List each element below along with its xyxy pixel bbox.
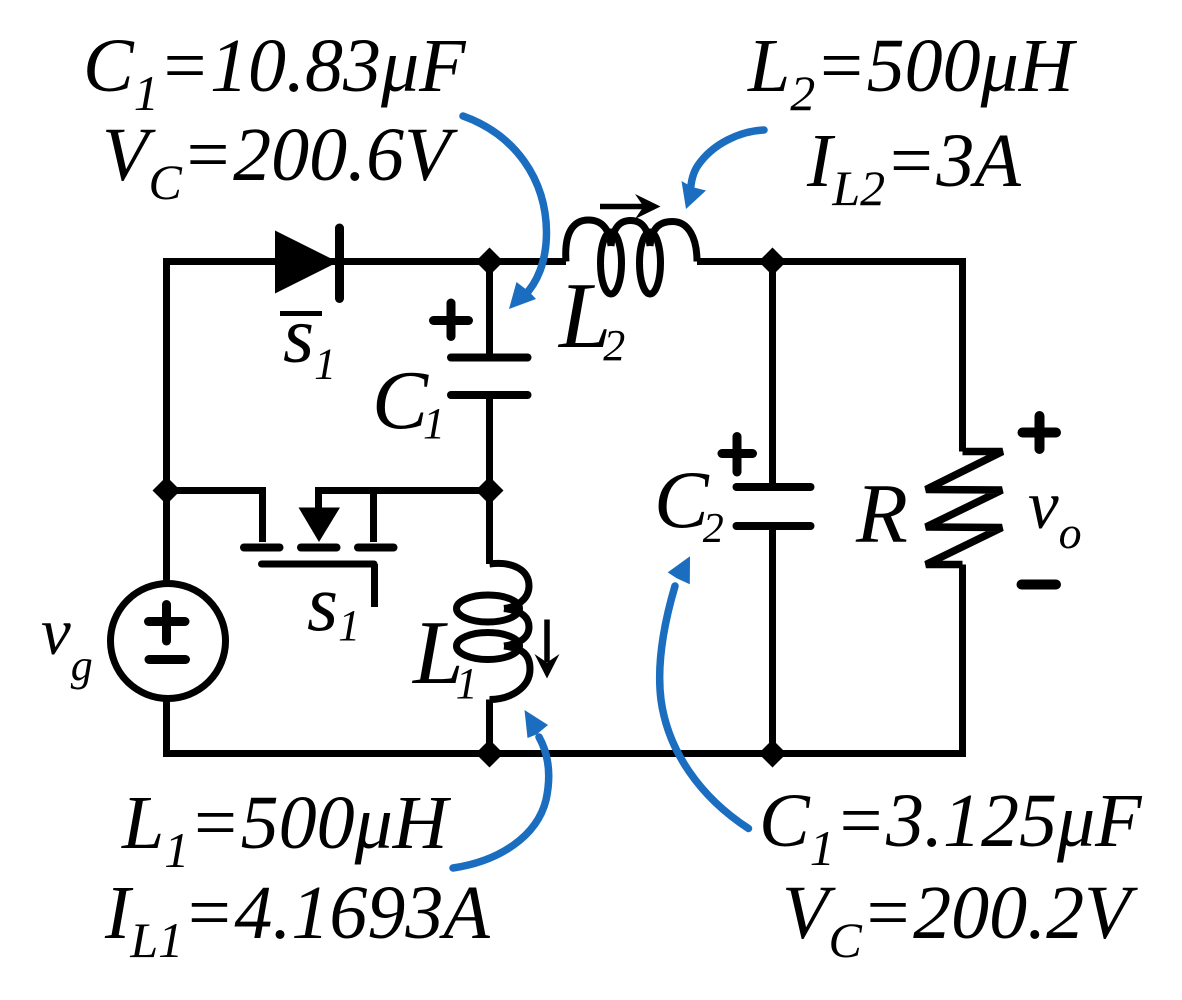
voltage source vg plus — [149, 605, 186, 642]
output vo minus — [1022, 580, 1057, 590]
svg-text:vg: vg — [41, 595, 93, 690]
wire C2 bottom — [769, 530, 776, 754]
MOSFET s1 body arrow — [299, 508, 341, 543]
capacitor C1 plus sign — [434, 303, 469, 337]
wire left vertical lower — [163, 698, 170, 754]
voltage source vg circle — [111, 584, 226, 699]
svg-text:VC=200.6V: VC=200.6V — [102, 113, 458, 210]
svg-text:C1=10.83μF: C1=10.83μF — [83, 24, 467, 121]
wire C1 bottom — [486, 399, 493, 491]
svg-text:C2: C2 — [654, 454, 724, 552]
MOSFET s1 source lead — [370, 487, 377, 542]
capacitor C1 top plate — [451, 354, 528, 362]
svg-text:VC=200.2V: VC=200.2V — [782, 871, 1138, 968]
callout arrow to C2 — [660, 556, 749, 828]
wire right vertical upper — [959, 258, 966, 452]
svg-text:vo: vo — [1028, 467, 1082, 558]
capacitor C2 plus sign — [722, 437, 753, 473]
svg-text:L2=500μH: L2=500μH — [747, 24, 1078, 121]
wire C1 top — [486, 262, 493, 355]
inductor L1 coil — [457, 563, 531, 699]
MOSFET s1 gate lead — [371, 564, 378, 607]
voltage source vg minus — [149, 655, 186, 664]
node F bottom C2 junction — [759, 740, 787, 768]
capacitor C2 bottom plate — [737, 522, 811, 530]
node D mid-right junction — [476, 477, 504, 505]
diode S1bar cathode bar — [335, 228, 344, 299]
node A top C1 junction — [476, 248, 504, 276]
wire mid rail left — [167, 487, 265, 494]
wire top rail left — [167, 258, 567, 265]
MOSFET s1 body lead — [315, 487, 322, 508]
inductor L2 coil — [566, 220, 697, 294]
wire C2 top — [769, 262, 776, 484]
callout arrow to L2 — [682, 130, 765, 209]
capacitor C2 top plate — [737, 483, 811, 491]
diode label s1bar overline — [280, 311, 322, 316]
wire right vertical lower — [959, 565, 966, 754]
wire mid rail right — [316, 487, 490, 494]
MOSFET s1 drain contact bar — [244, 544, 280, 552]
MOSFET s1 body contact bar — [301, 544, 337, 552]
svg-text:IL1=4.1693A: IL1=4.1693A — [104, 871, 490, 968]
wire left vertical upper — [163, 258, 170, 584]
wire top rail right — [697, 258, 963, 265]
svg-text:C1: C1 — [372, 354, 445, 448]
MOSFET s1 source contact bar — [358, 544, 394, 552]
wire L1 top — [486, 491, 493, 565]
resistor R zigzag — [926, 452, 1003, 565]
node B top C2 junction — [759, 248, 787, 276]
svg-text:R: R — [855, 467, 908, 561]
output vo plus — [1023, 416, 1057, 449]
wire bottom rail — [167, 754, 967, 758]
svg-text:s1: s1 — [283, 292, 336, 389]
svg-text:IL2=3A: IL2=3A — [806, 119, 1021, 216]
svg-text:L2: L2 — [557, 264, 625, 370]
inductor L1 current arrow — [544, 620, 550, 663]
svg-text:s1: s1 — [307, 560, 360, 650]
callout arrow to C1 — [463, 116, 547, 309]
capacitor C1 bottom plate — [451, 391, 528, 399]
svg-text:C1=3.125μF: C1=3.125μF — [759, 779, 1143, 876]
inductor L2 current arrow — [600, 204, 645, 210]
wire L1 bottom — [486, 700, 493, 754]
MOSFET s1 gate bar — [262, 561, 375, 568]
diode S1bar triangle — [275, 231, 338, 294]
node E bottom L1 junction — [476, 740, 504, 768]
MOSFET s1 drain lead — [259, 487, 266, 542]
svg-text:L1=500μH: L1=500μH — [121, 781, 452, 878]
node C mid-left junction — [153, 477, 181, 505]
callout arrow to L1 — [453, 710, 549, 868]
